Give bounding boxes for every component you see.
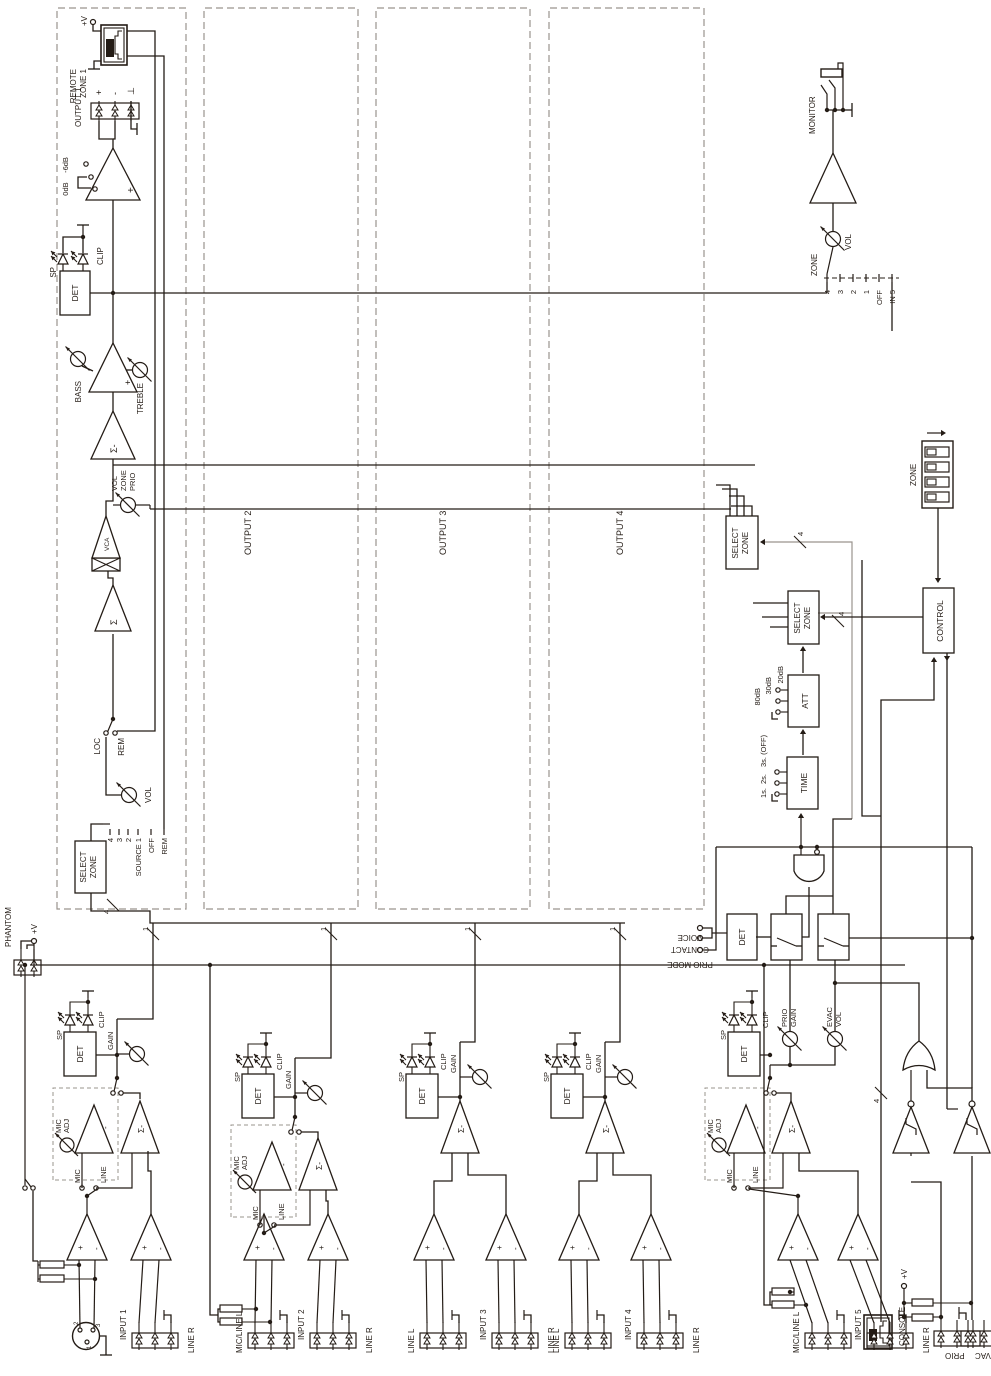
svg-text:+V: +V [900, 1268, 909, 1279]
post switch input2 [289, 1130, 293, 1134]
svg-text:BASS: BASS [74, 381, 83, 402]
svg-text:4: 4 [796, 532, 805, 536]
mic adj pot input5 [712, 1138, 726, 1152]
output zone 4 dashed box [549, 8, 704, 909]
svg-text:OFF: OFF [875, 290, 884, 305]
det box input4 [551, 1074, 583, 1118]
svg-text:4: 4 [872, 1099, 881, 1103]
select zone box output1 [75, 841, 106, 893]
att box [788, 675, 819, 727]
line path wire input2 [274, 1190, 310, 1225]
svg-text:SP: SP [542, 1072, 551, 1082]
svg-text:Σ-: Σ- [109, 444, 119, 453]
svg-text:+: + [568, 1245, 577, 1250]
contact terminal [698, 948, 703, 953]
svg-text:1s.: 1s. [759, 788, 768, 798]
svg-text:CLIP: CLIP [584, 1053, 593, 1070]
svg-text:+: + [787, 1245, 796, 1250]
svg-text:CLIP: CLIP [761, 1011, 770, 1028]
svg-text:+: + [94, 90, 104, 95]
select zone c1 output staircase [716, 485, 730, 516]
mic adj amp input1 [75, 1105, 113, 1153]
svg-text:DET: DET [562, 1088, 572, 1105]
sum amp input1 [121, 1101, 159, 1153]
remote line from selector REM [127, 56, 164, 829]
svg-text:ATT: ATT [800, 693, 810, 708]
input3 strip ground [452, 1315, 459, 1323]
line L amp input3 [414, 1214, 454, 1260]
control to szc2 bus [822, 616, 923, 618]
svg-text:3s. (OFF): 3s. (OFF) [759, 734, 768, 767]
svg-text:CLIP: CLIP [275, 1053, 284, 1070]
svg-text:1: 1 [463, 927, 472, 931]
svg-text:1: 1 [141, 927, 150, 931]
svg-text:INPUT 3: INPUT 3 [479, 1309, 488, 1340]
power amp taps [93, 187, 97, 191]
svg-text:TIME: TIME [799, 773, 809, 794]
phantom switch input1 [33, 1191, 38, 1261]
pullup resistors [903, 1289, 905, 1317]
power amp output1 [86, 148, 140, 200]
control box [923, 588, 954, 653]
loc rem switch [104, 731, 108, 735]
monitor amp [832, 203, 834, 231]
bus slash 4 [107, 899, 119, 911]
evac vol out [834, 960, 836, 1031]
svg-text:-: - [110, 92, 120, 95]
svg-text:EVAC: EVAC [975, 1351, 991, 1360]
svg-text:DET: DET [739, 1046, 749, 1063]
contact wire to prio line [703, 847, 716, 950]
phantom strip wires [21, 941, 31, 949]
svg-text:INPUT 5: INPUT 5 [854, 1309, 863, 1340]
zone dip switch [922, 441, 953, 508]
wires to sum input4 [579, 1153, 597, 1214]
svg-text:MIC: MIC [251, 1206, 260, 1220]
evac line to switch [849, 937, 972, 939]
vol zone prio pot [113, 504, 121, 506]
svg-text:Σ-: Σ- [136, 1125, 146, 1133]
svg-text:-: - [656, 1247, 665, 1250]
strip ground input5 [837, 1315, 844, 1323]
evac strip [961, 1331, 991, 1346]
gain pot input2 [294, 1058, 296, 1117]
zone control bus lx906 [113, 464, 755, 466]
phantom feed input2 [208, 963, 212, 967]
svg-text:MIC: MIC [73, 1169, 82, 1183]
gain pot input1 [116, 1019, 118, 1078]
svg-text:LINE: LINE [277, 1203, 286, 1220]
svg-text:-: - [279, 1163, 288, 1166]
bass pot [71, 352, 86, 367]
wire input2 to bus [295, 923, 331, 1058]
svg-text:PRIO MODE: PRIO MODE [667, 960, 713, 969]
wire input3 to bus [460, 923, 475, 1042]
svg-text:REMOTE: REMOTE [69, 69, 78, 103]
svg-text:1: 1 [862, 290, 871, 294]
and gate inputs [800, 847, 802, 855]
svg-text:REM: REM [160, 838, 169, 855]
svg-text:-: - [753, 1126, 762, 1129]
console bus from jack [880, 1315, 882, 1322]
svg-text:-: - [511, 1247, 520, 1250]
sp led output1 [58, 254, 68, 264]
prio wire [911, 1182, 941, 1320]
svg-text:SP: SP [55, 1030, 64, 1040]
output zone 2 dashed box [204, 8, 358, 909]
svg-text:GAIN: GAIN [449, 1055, 458, 1073]
svg-text:2: 2 [124, 838, 133, 842]
svg-text:LINE: LINE [751, 1166, 760, 1183]
svg-text:LINE L: LINE L [552, 1328, 561, 1353]
time taps [780, 793, 787, 795]
det box input1 [64, 1032, 96, 1076]
sum amp input4 [586, 1101, 624, 1153]
sp led input4 [552, 1057, 562, 1067]
led wiring output1 [62, 264, 64, 271]
line R strip input4 [637, 1333, 683, 1348]
sum amp input2 [299, 1138, 337, 1190]
monitor jack [821, 69, 842, 77]
svg-text:PHANTOM: PHANTOM [4, 907, 13, 947]
svg-text:CONTROL: CONTROL [935, 600, 945, 642]
or gate [903, 1041, 935, 1070]
svg-text:1: 1 [608, 927, 617, 931]
svg-text:-: - [803, 1247, 812, 1250]
svg-text:-: - [863, 1247, 872, 1250]
line R amp input2 [308, 1214, 348, 1260]
mic adj amp input2 [253, 1142, 291, 1190]
gray bus slash [794, 536, 806, 548]
sum amp input5 [772, 1101, 810, 1153]
svg-text:-: - [156, 1247, 165, 1250]
svg-text:DET: DET [417, 1088, 427, 1105]
svg-text:ADJ: ADJ [240, 1156, 249, 1170]
svg-text:ZONE: ZONE [810, 254, 819, 276]
svg-text:2s.: 2s. [759, 774, 768, 784]
svg-text:GAIN: GAIN [284, 1071, 293, 1089]
svg-text:OUTPUT 4: OUTPUT 4 [615, 511, 625, 555]
line path wire input5 [748, 1153, 783, 1188]
svg-text:+: + [495, 1245, 504, 1250]
select zone control 1 [726, 516, 758, 569]
svg-text:EVAC: EVAC [825, 1007, 834, 1027]
svg-text:LINE L: LINE L [407, 1328, 416, 1353]
strip ground input2 [280, 1315, 287, 1323]
svg-text:0dB: 0dB [61, 182, 70, 195]
phantom terminal strip [14, 960, 41, 975]
wires amp to output strip [99, 121, 113, 148]
svg-text:GAIN: GAIN [594, 1055, 603, 1073]
svg-text:+: + [140, 1245, 149, 1250]
svg-text:1: 1 [319, 927, 328, 931]
rj45 ground [94, 61, 101, 69]
svg-text:3: 3 [836, 290, 845, 294]
svg-text:SP: SP [719, 1030, 728, 1040]
prio gain out [789, 960, 791, 1031]
mic adj pot input1 [60, 1138, 74, 1152]
wire input1 to bus [117, 923, 153, 1019]
line R strip input3 [492, 1333, 538, 1348]
mic adj dashed box input5 [705, 1088, 770, 1180]
line path wire input1 [96, 1153, 132, 1188]
select zone control 2 [788, 591, 819, 644]
clip led input5 [747, 1015, 757, 1025]
mic adj pot input2 [238, 1175, 252, 1189]
monitor ground [844, 109, 852, 111]
wire select zone to selector [91, 824, 103, 841]
svg-text:SELECT: SELECT [793, 602, 802, 633]
clip led input1 [83, 1015, 93, 1025]
post switch input1 [111, 1091, 115, 1095]
phantom feed input5 [762, 963, 766, 967]
svg-text:ZONE: ZONE [89, 856, 98, 878]
remote line from REM contact [117, 31, 155, 731]
svg-text:-: - [101, 1126, 110, 1129]
svg-text:Σ-: Σ- [314, 1162, 324, 1170]
dip arrow [927, 432, 943, 434]
wires to sum input3 [434, 1153, 452, 1214]
svg-text:PRIO: PRIO [945, 1351, 965, 1360]
mic adj amp input5 [727, 1105, 765, 1153]
svg-text:+: + [126, 187, 137, 193]
svg-text:⊥: ⊥ [126, 87, 136, 95]
svg-text:SELECT: SELECT [731, 527, 740, 558]
remote zone rj45 [101, 25, 127, 65]
voice terminals [698, 936, 703, 941]
mic line switch input2 [263, 1214, 265, 1233]
svg-text:ZONE: ZONE [741, 532, 750, 554]
bass treble amp [89, 343, 137, 392]
svg-text:DET: DET [737, 929, 747, 946]
time box [787, 757, 818, 809]
svg-text:-: - [584, 1247, 593, 1250]
svg-text:VOL: VOL [110, 476, 119, 491]
svg-text:LINE R: LINE R [365, 1327, 374, 1353]
svg-text:INPUT 4: INPUT 4 [624, 1309, 633, 1340]
line R to sum input2 [326, 1190, 328, 1214]
sp led input1 [65, 1015, 75, 1025]
led wires input2 [247, 1067, 249, 1074]
svg-text:CLIP: CLIP [97, 1011, 106, 1028]
svg-text:VOICE: VOICE [678, 933, 703, 942]
sp led input5 [729, 1015, 739, 1025]
sum2 amp output1 [91, 411, 135, 459]
input4 strip ground [597, 1315, 604, 1323]
console +V [902, 1284, 907, 1289]
svg-text:SP: SP [397, 1072, 406, 1082]
svg-text:ZONE: ZONE [909, 464, 918, 486]
svg-text:REM: REM [117, 738, 126, 756]
svg-text:-: - [333, 1247, 342, 1250]
phantom +V terminal [32, 939, 37, 944]
svg-text:LINE R: LINE R [922, 1327, 931, 1353]
svg-text:+: + [317, 1245, 326, 1250]
evac vol pot [790, 1047, 835, 1065]
svg-text:LINE R: LINE R [692, 1327, 701, 1353]
svg-text:+V: +V [30, 923, 39, 934]
phantom +V rail [30, 964, 905, 966]
svg-text:4: 4 [102, 910, 111, 914]
svg-text:INPUT 2: INPUT 2 [297, 1309, 306, 1340]
svg-text:CLIP: CLIP [439, 1053, 448, 1070]
led wires input4 [556, 1067, 558, 1074]
szc2 top wires [770, 626, 788, 628]
svg-text:Σ: Σ [109, 619, 119, 625]
or output to evac vol line [835, 983, 919, 1041]
output1 terminal strip [91, 103, 139, 119]
clip led input4 [570, 1057, 580, 1067]
gray zone bus into szc1 [762, 542, 852, 613]
gray bus left arm [851, 613, 853, 819]
prio strip [934, 1331, 980, 1346]
svg-text:+: + [847, 1245, 856, 1250]
output zone 1 dashed box [57, 8, 186, 909]
svg-text:INPUT 1: INPUT 1 [119, 1309, 128, 1340]
sp led input2 [243, 1057, 253, 1067]
preamp input2 [244, 1214, 284, 1260]
console rj45 [864, 1315, 892, 1349]
svg-text:VOL: VOL [144, 786, 153, 803]
svg-text:3: 3 [115, 838, 124, 842]
evac switch box [818, 914, 849, 960]
monitor in5 feed [891, 282, 893, 331]
svg-text:VCA: VCA [104, 537, 111, 551]
svg-text:PRIO: PRIO [780, 1008, 789, 1027]
monitor vol pot [832, 247, 834, 278]
mic line switch input5 [797, 1196, 799, 1214]
monitor jack contacts [826, 109, 844, 111]
svg-text:OUTPUT 3: OUTPUT 3 [438, 511, 448, 555]
led wires input5 [733, 1025, 735, 1032]
schmitt buffer evac [954, 1107, 990, 1153]
schmitt buffer prio [893, 1107, 929, 1153]
vol pot output1 [106, 737, 121, 795]
preamp input5 [778, 1214, 818, 1260]
svg-text:ADJ: ADJ [62, 1119, 71, 1133]
svg-text:MONITOR: MONITOR [808, 96, 817, 134]
det box output1 [60, 271, 90, 315]
det monitor line lx1078 [113, 292, 827, 294]
prio ground [959, 1313, 966, 1320]
voice switch box [771, 914, 802, 960]
control output line [946, 653, 948, 1109]
svg-text:SP: SP [233, 1072, 242, 1082]
svg-text:+: + [640, 1245, 649, 1250]
svg-text:-: - [439, 1247, 448, 1250]
svg-text:2: 2 [849, 290, 858, 294]
svg-text:VOL: VOL [844, 233, 853, 250]
wire bassamp to det junction [112, 200, 114, 343]
line ly862 [862, 560, 881, 816]
att taps [781, 711, 788, 713]
svg-text:GAIN: GAIN [106, 1032, 115, 1050]
line R amp input5 [838, 1214, 878, 1260]
svg-text:+: + [123, 380, 133, 385]
source selector contacts [109, 831, 111, 833]
det box input3 [406, 1074, 438, 1118]
post switch input5 [764, 1091, 768, 1095]
svg-text:DET: DET [75, 1046, 85, 1063]
det voice box [727, 914, 757, 960]
svg-text:DET: DET [70, 285, 80, 302]
svg-text:Σ-: Σ- [601, 1125, 611, 1133]
svg-text:+: + [253, 1245, 262, 1250]
svg-text:OFF: OFF [147, 838, 156, 853]
svg-text:ZONE 1: ZONE 1 [79, 68, 88, 97]
selector wire from box [103, 823, 110, 825]
preamp input1 [67, 1214, 107, 1260]
evac wire [971, 1156, 973, 1320]
svg-text:-: - [269, 1247, 278, 1250]
prio gain pot [769, 1065, 771, 1078]
svg-text:LINE R: LINE R [187, 1327, 196, 1353]
monitor det feed [826, 282, 828, 293]
xlr connector input1 [73, 1323, 100, 1350]
det junction dot [111, 291, 115, 295]
svg-text:ADJ: ADJ [714, 1119, 723, 1133]
svg-text:TREBLE: TREBLE [136, 383, 145, 414]
arrow time to att [802, 731, 804, 755]
svg-text:-: - [92, 1247, 101, 1250]
led wires input3 [411, 1067, 413, 1074]
svg-text:SELECT: SELECT [79, 851, 88, 882]
sp led input3 [407, 1057, 417, 1067]
svg-text:MIC/LINE L: MIC/LINE L [235, 1311, 244, 1353]
arrow att to szc2 [802, 648, 804, 673]
wire dip to control [937, 508, 939, 581]
line R amp input3 [486, 1214, 526, 1260]
monitor zone selector [824, 277, 899, 279]
rj45 +V [93, 25, 101, 31]
clip led output1 [78, 254, 88, 264]
svg-text:30dB: 30dB [764, 677, 773, 695]
source bus vertical [91, 893, 625, 923]
xlr wires input1 [79, 1260, 80, 1328]
wire input4 to bus [605, 923, 620, 1042]
svg-text:ZONE: ZONE [119, 470, 128, 491]
schmitt prio out [910, 1070, 912, 1101]
svg-text:-6dB: -6dB [61, 157, 70, 173]
svg-text:Σ-: Σ- [456, 1125, 466, 1133]
zone select bus lx862 [150, 508, 731, 510]
mic adj dashed box input1 [53, 1088, 118, 1180]
svg-text:DET: DET [253, 1088, 263, 1105]
det box input5 [728, 1032, 760, 1076]
treble pot [133, 363, 148, 378]
and gate output [802, 887, 809, 937]
svg-text:+V: +V [80, 15, 89, 26]
svg-text:LINE: LINE [99, 1166, 108, 1183]
svg-text:SOURCE 1: SOURCE 1 [134, 838, 143, 876]
svg-text:+: + [76, 1245, 85, 1250]
monitor out wires [832, 110, 834, 153]
clip led input2 [261, 1057, 271, 1067]
line L amp input4 [559, 1214, 599, 1260]
svg-text:Σ-: Σ- [787, 1125, 797, 1133]
det box input2 [242, 1074, 274, 1118]
gain pot input4 [604, 1042, 606, 1101]
summing amp output1 [95, 585, 131, 631]
line R to sum input1 [148, 1151, 151, 1214]
line R to sum input5 [799, 1153, 858, 1214]
switch outputs join [786, 896, 833, 914]
vca block output1 [92, 558, 120, 571]
console bus to control [881, 659, 934, 1322]
wire vca to sum2 [106, 459, 113, 516]
sum amp input3 [441, 1101, 479, 1153]
line R strip input1 [132, 1333, 178, 1348]
